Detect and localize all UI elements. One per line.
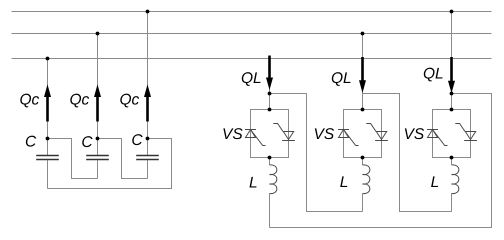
svg-text:Qc: Qc bbox=[70, 92, 90, 109]
svg-text:VS: VS bbox=[404, 126, 425, 143]
svg-text:QL: QL bbox=[241, 70, 262, 87]
svg-text:QL: QL bbox=[423, 65, 444, 82]
svg-text:C: C bbox=[131, 132, 143, 149]
svg-text:L: L bbox=[249, 175, 258, 192]
svg-text:VS: VS bbox=[222, 126, 243, 143]
svg-text:C: C bbox=[81, 134, 93, 151]
svg-text:L: L bbox=[340, 174, 349, 191]
svg-text:C: C bbox=[25, 134, 37, 151]
svg-text:Qc: Qc bbox=[20, 92, 40, 109]
svg-text:QL: QL bbox=[331, 70, 352, 87]
svg-text:VS: VS bbox=[314, 126, 335, 143]
svg-text:Qc: Qc bbox=[120, 92, 140, 109]
svg-text:L: L bbox=[431, 174, 440, 191]
